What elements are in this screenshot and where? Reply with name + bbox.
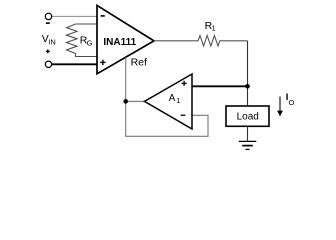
svg-text:G: G	[87, 38, 93, 47]
svg-text:INA111: INA111	[103, 37, 136, 48]
svg-text:1: 1	[212, 24, 216, 33]
svg-text:A: A	[169, 93, 176, 104]
svg-text:Load: Load	[237, 112, 259, 123]
svg-text:IN: IN	[48, 37, 56, 46]
svg-text:O: O	[289, 98, 295, 107]
svg-text:Ref: Ref	[131, 57, 147, 69]
svg-text:1: 1	[176, 96, 180, 105]
